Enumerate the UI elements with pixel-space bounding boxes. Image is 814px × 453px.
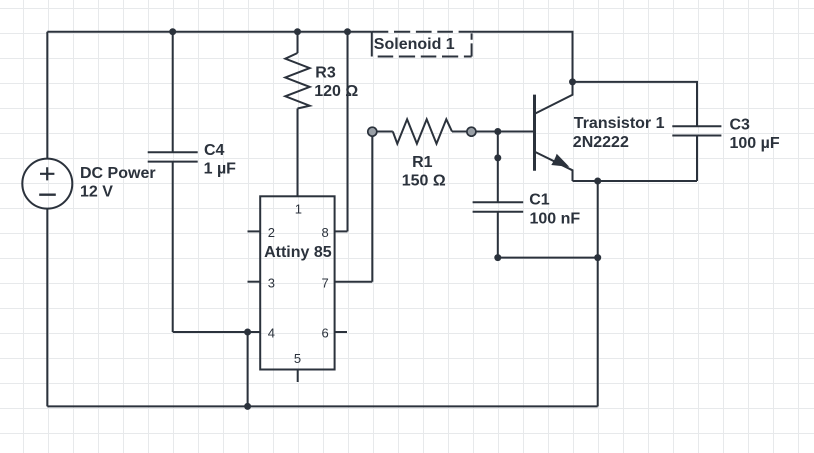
svg-text:R1: R1 bbox=[412, 154, 433, 171]
svg-text:2: 2 bbox=[268, 225, 275, 240]
svg-text:3: 3 bbox=[268, 275, 275, 290]
svg-text:2N2222: 2N2222 bbox=[573, 134, 629, 151]
svg-text:5: 5 bbox=[294, 351, 301, 366]
svg-text:100 nF: 100 nF bbox=[530, 210, 581, 227]
svg-text:120 Ω: 120 Ω bbox=[314, 83, 358, 100]
svg-text:Transistor 1: Transistor 1 bbox=[574, 115, 665, 132]
svg-text:8: 8 bbox=[322, 225, 329, 240]
svg-text:C4: C4 bbox=[204, 142, 225, 159]
svg-text:1 µF: 1 µF bbox=[204, 160, 237, 177]
svg-text:R3: R3 bbox=[315, 65, 336, 82]
svg-text:4: 4 bbox=[268, 326, 275, 341]
svg-text:6: 6 bbox=[322, 326, 329, 341]
svg-text:DC Power: DC Power bbox=[80, 165, 156, 182]
svg-text:100 µF: 100 µF bbox=[730, 135, 780, 152]
svg-text:C3: C3 bbox=[730, 116, 751, 133]
svg-text:Attiny 85: Attiny 85 bbox=[264, 244, 332, 261]
svg-text:Solenoid 1: Solenoid 1 bbox=[374, 36, 455, 53]
svg-text:1: 1 bbox=[295, 202, 302, 217]
svg-text:150 Ω: 150 Ω bbox=[402, 172, 446, 189]
svg-text:7: 7 bbox=[322, 275, 329, 290]
svg-text:12 V: 12 V bbox=[80, 183, 113, 200]
svg-text:C1: C1 bbox=[529, 191, 550, 208]
